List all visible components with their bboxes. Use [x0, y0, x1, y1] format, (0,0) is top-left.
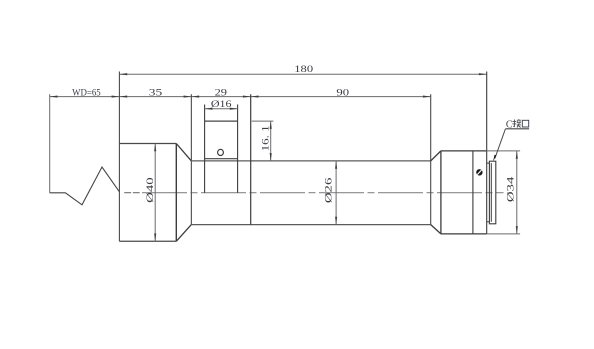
svg-text:WD=65: WD=65 — [72, 88, 101, 99]
dimension D16 — [205, 108, 238, 110]
svg-text:Ø40: Ø40 — [145, 177, 156, 203]
object plane vertical line — [49, 94, 51, 193]
arrows chain dimension line — [50, 96, 58, 98]
screw hole mark O — [218, 149, 224, 155]
boss top edge — [205, 120, 238, 122]
cylinder D40 body — [119, 143, 176, 145]
dimension line 180 — [119, 73, 486, 75]
C-mount flange plate — [487, 162, 490, 164]
hanzi JIE (interface) drawn strokes — [512, 119, 521, 127]
taper cone right — [431, 151, 441, 161]
svg-text:35: 35 — [149, 88, 163, 99]
boss D16 right edge — [237, 105, 239, 193]
dimension D26 — [335, 161, 337, 225]
svg-text:16. 1: 16. 1 — [261, 125, 272, 151]
extension line / taper end edge — [190, 94, 192, 224]
dimension D34 — [516, 151, 518, 234]
step edge / extension line — [250, 94, 252, 224]
svg-text:29: 29 — [215, 88, 228, 99]
extension lines for D34 — [487, 150, 520, 152]
svg-text:Ø34: Ø34 — [505, 177, 516, 203]
dimension 16.1 — [270, 121, 272, 161]
svg-text:C: C — [506, 119, 513, 130]
arrows 180 dimension — [119, 73, 127, 75]
svg-text:180: 180 — [294, 64, 313, 75]
taper cone left — [176, 144, 191, 161]
rear block body — [440, 151, 442, 234]
break zigzag on axis — [50, 167, 120, 205]
dimension D40 — [154, 144, 156, 242]
svg-text:Ø26: Ø26 — [323, 178, 334, 204]
extension line front face / cylinder left edge — [118, 72, 120, 242]
svg-text:90: 90 — [336, 88, 349, 99]
svg-text:Ø16: Ø16 — [211, 99, 232, 110]
extension line 180 right / block right edge — [486, 72, 488, 234]
rear block inner edge — [472, 151, 474, 234]
boss seat line — [205, 158, 238, 160]
leader underline — [505, 128, 529, 130]
extension lines for 16.1 — [252, 120, 274, 122]
boss D16 left edge — [204, 105, 206, 193]
extension line / taper junction right — [430, 94, 432, 224]
leader line C-mount — [495, 129, 506, 158]
dimension line chain WD=65 / 35 / 29 / 90 — [50, 96, 431, 98]
centerline (optical axis) — [124, 192, 131, 194]
hanzi KOU (mouth) drawn strokes — [522, 120, 528, 127]
screw head (side view) — [476, 169, 482, 175]
main tube D26 top and bottom — [191, 160, 430, 162]
